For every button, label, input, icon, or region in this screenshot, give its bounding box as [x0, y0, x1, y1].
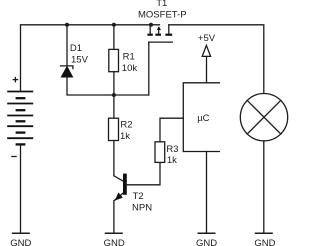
svg-text:R3: R3 — [166, 144, 178, 155]
wire T2 base to R3 bottom — [127, 162, 160, 184]
diode D1 zener 15V — [61, 43, 89, 77]
svg-text:MOSFET-P: MOSFET-P — [138, 9, 187, 20]
svg-text:10k: 10k — [122, 63, 138, 74]
svg-text:GND: GND — [104, 238, 125, 246]
lamp LA1 (circle with X) — [240, 94, 287, 141]
wire R3 top to uC pin — [160, 118, 183, 142]
wire R1 top — [113, 25, 115, 50]
transistor T2 NPN — [114, 174, 152, 214]
resistor R2 1k — [109, 118, 133, 142]
wire lamp bottom to ground — [263, 141, 265, 233]
svg-text:µC: µC — [197, 113, 209, 124]
svg-text:NPN: NPN — [132, 202, 152, 213]
node A (D1 tap on top rail) — [65, 23, 69, 27]
wire +5V to uC top — [206, 56, 208, 82]
power +5V symbol — [198, 33, 216, 57]
svg-text:T1: T1 — [156, 0, 167, 9]
battery minus label — [11, 156, 16, 158]
svg-text:R1: R1 — [123, 52, 135, 63]
node C (R1/R2/gate junction) — [112, 93, 116, 97]
svg-text:15V: 15V — [71, 55, 89, 66]
wire T2 emitter to ground — [113, 201, 115, 233]
wire R2 bottom to T2 collector — [113, 141, 115, 176]
transistor T1 MOSFET-P — [138, 0, 187, 42]
svg-text:D1: D1 — [70, 43, 82, 54]
resistor R1 10k — [109, 49, 138, 74]
svg-text:R2: R2 — [120, 120, 132, 131]
wire top rail right (T1 drain to lamp) — [169, 25, 264, 94]
wire uC bottom to ground — [206, 152, 208, 234]
svg-text:1k: 1k — [120, 131, 130, 142]
wire top rail left (battery+ to T1 source) — [21, 25, 160, 92]
svg-text:1k: 1k — [167, 155, 177, 166]
svg-text:GND: GND — [196, 238, 217, 246]
ground (T2 emitter) — [104, 233, 125, 246]
node B (R1 tap on top rail) — [112, 23, 116, 27]
wire D1 cathode — [66, 25, 68, 66]
wire D1 anode to node row — [67, 77, 149, 95]
ground (lamp) — [254, 233, 275, 246]
ground (battery) — [10, 233, 31, 246]
wire T1 gate down to node C — [148, 42, 150, 95]
ground (uC) — [196, 233, 217, 246]
svg-text:+5V: +5V — [198, 33, 216, 44]
battery plus label — [13, 77, 19, 83]
wire R1 bottom — [113, 72, 115, 95]
wire battery- to ground — [20, 144, 22, 233]
resistor R3 1k — [155, 142, 179, 166]
battery BT1 — [7, 92, 33, 145]
svg-text:GND: GND — [10, 238, 31, 246]
svg-text:GND: GND — [254, 238, 275, 246]
wire R2 top — [113, 95, 115, 118]
svg-text:T2: T2 — [133, 191, 144, 202]
IC uC microcontroller box — [183, 83, 219, 152]
